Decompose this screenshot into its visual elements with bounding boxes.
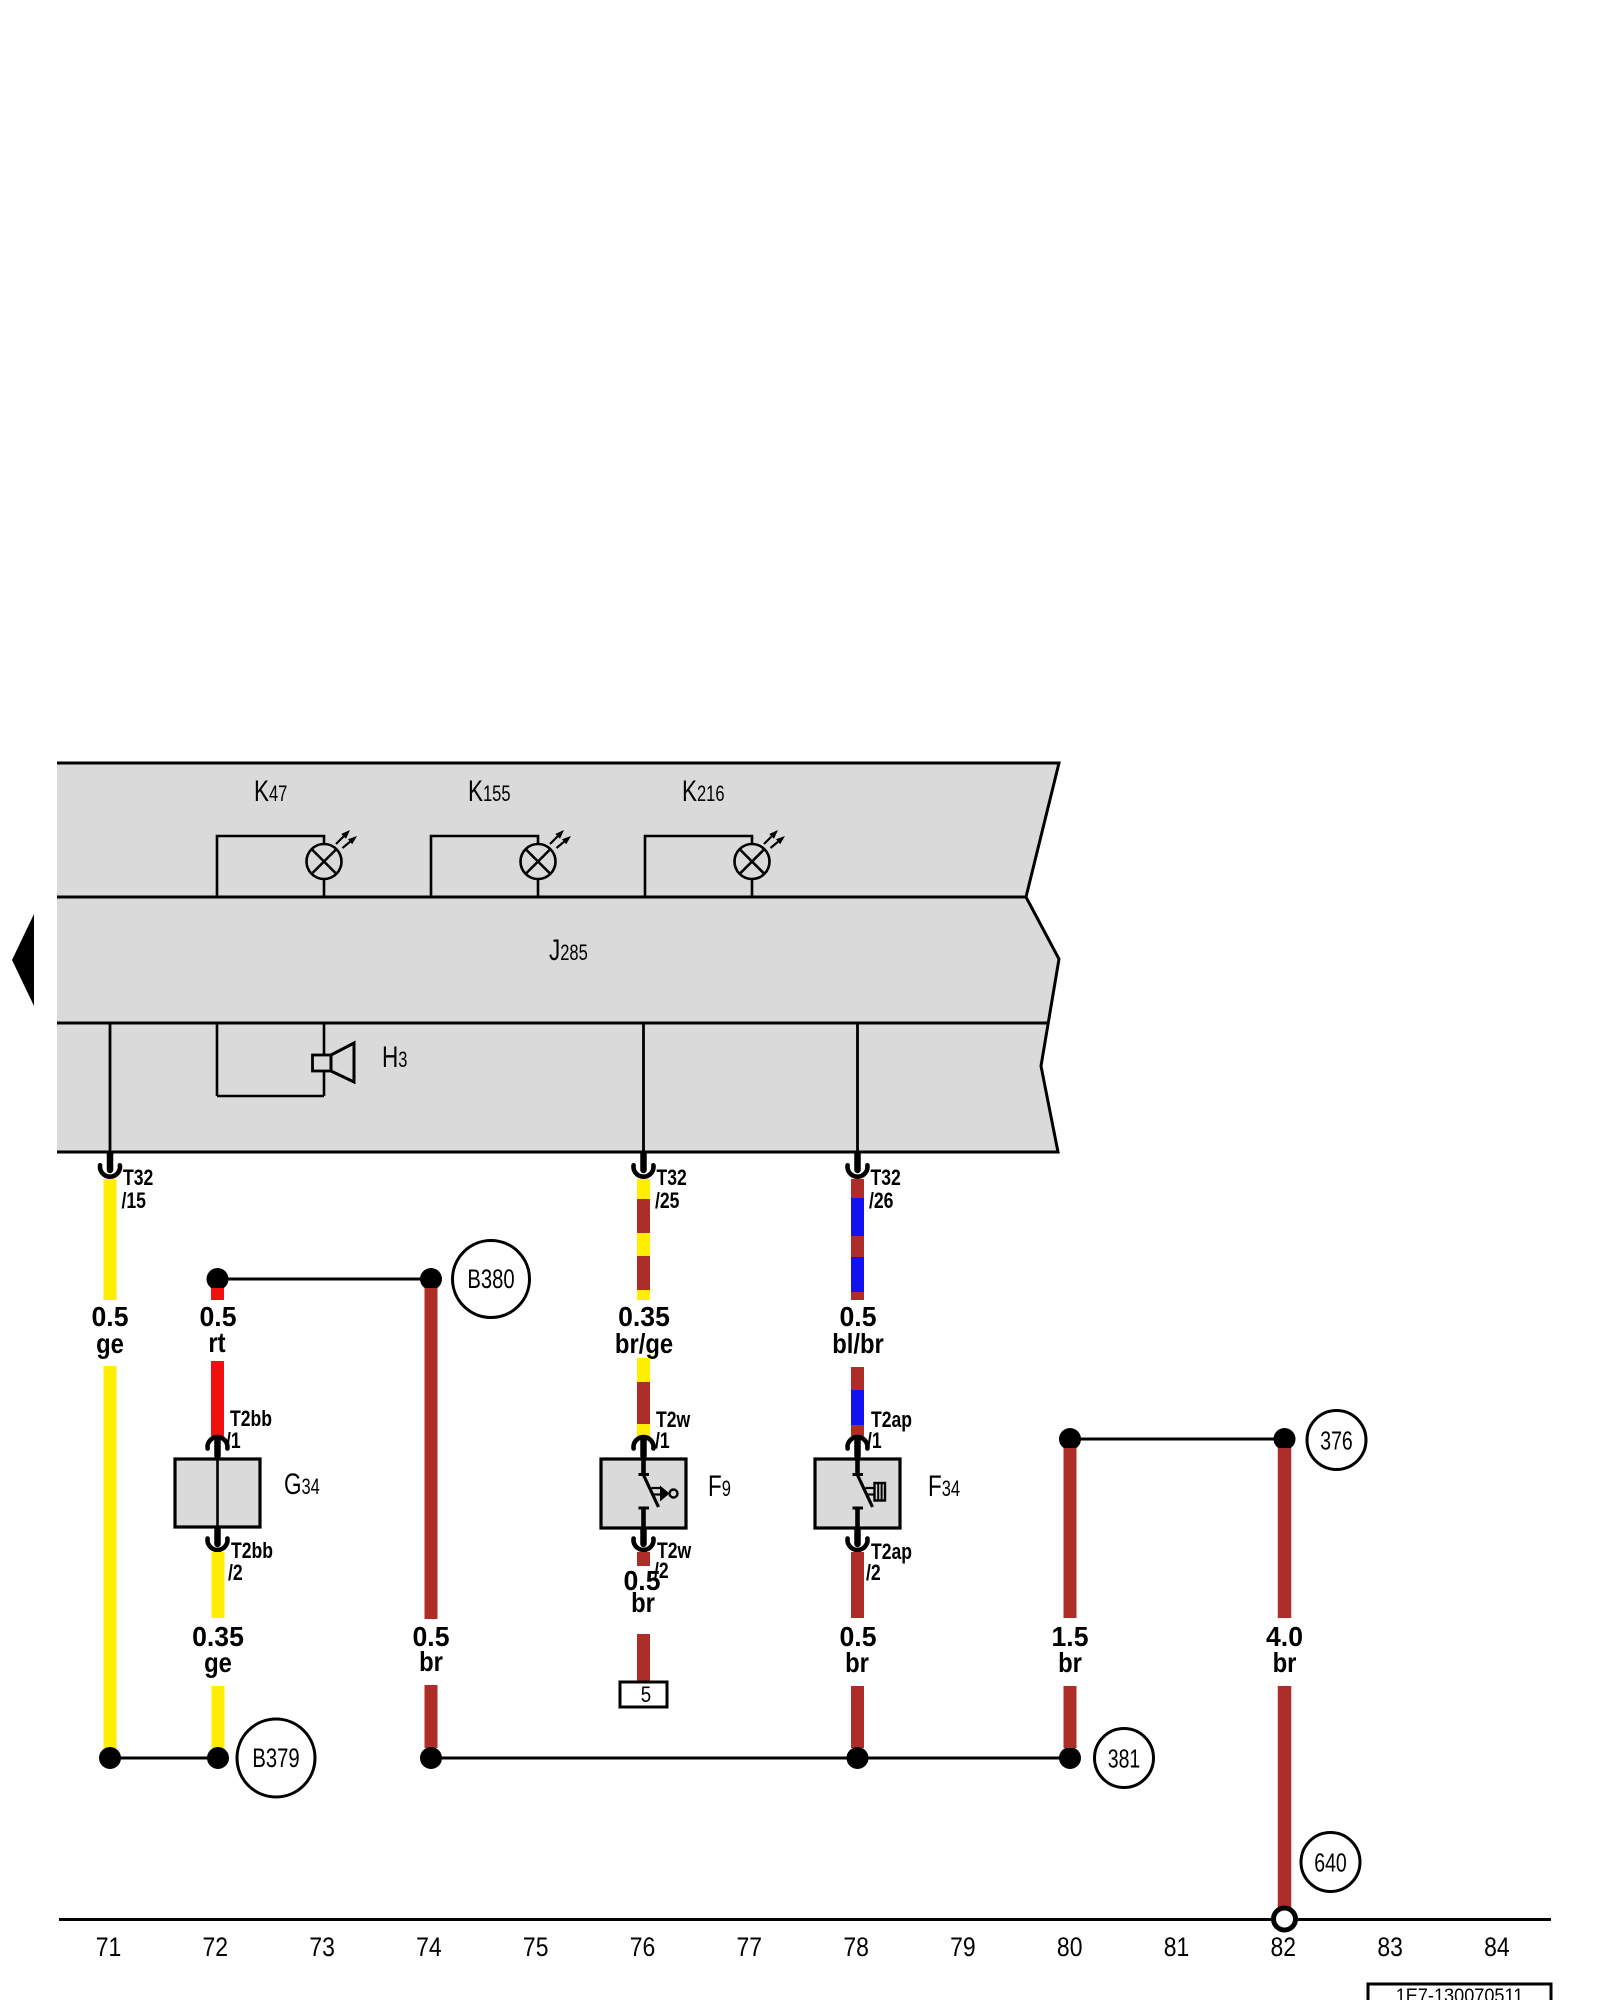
svg-text:83: 83 bbox=[1377, 1932, 1403, 1962]
indicator lamp K47 bbox=[307, 844, 342, 879]
left continuation arrow bbox=[12, 914, 34, 1006]
wire 0.5 ge lower segment bbox=[104, 1366, 117, 1749]
band divider lower bbox=[57, 1022, 1047, 1025]
wire 0.35 br/ge upper segment bbox=[637, 1179, 650, 1300]
svg-text:T2bb: T2bb bbox=[230, 1407, 272, 1431]
connector T2bb/2 pin bbox=[214, 1530, 221, 1544]
switch F34 actuator (plunger) bbox=[866, 1487, 875, 1489]
svg-text:/15: /15 bbox=[122, 1189, 146, 1213]
current track rule bbox=[59, 1918, 1551, 1921]
svg-text:71: 71 bbox=[96, 1932, 122, 1962]
switch F9 actuator (arrow to circle) bbox=[652, 1487, 661, 1489]
wire J285 to T32/26 bbox=[856, 1023, 859, 1152]
connector T2bb/1 arc bbox=[208, 1437, 228, 1448]
junction node bus middle bbox=[847, 1747, 869, 1769]
J285 control unit outline (dashboard insert, torn right edge) bbox=[57, 763, 1059, 1152]
wire 4.0 br upper segment bbox=[1278, 1448, 1292, 1618]
junction node bus right bbox=[1059, 1747, 1081, 1769]
connector T2ap/2 arc bbox=[847, 1539, 867, 1550]
warning buzzer H3 symbol bbox=[313, 1055, 332, 1071]
wire 0.35 ge upper segment bbox=[212, 1552, 225, 1618]
wire 0.5 br (F34) lower segment bbox=[851, 1686, 864, 1748]
wire link B379 bbox=[110, 1757, 218, 1760]
switch F34 contacts bbox=[855, 1459, 860, 1474]
svg-text:br: br bbox=[845, 1646, 869, 1678]
connector T32/26 socket arc bbox=[847, 1165, 867, 1176]
svg-text:B380: B380 bbox=[467, 1264, 514, 1295]
terminal 5 box bbox=[620, 1682, 667, 1707]
wire 0.5 br (F9) stub bbox=[637, 1552, 650, 1566]
wire 0.5 rt stub bbox=[211, 1288, 224, 1300]
wire 1.5 br lower segment bbox=[1064, 1686, 1077, 1748]
svg-text:br: br bbox=[419, 1645, 443, 1677]
switch F9 contacts bbox=[641, 1459, 646, 1474]
indicator lamp K216 bbox=[735, 844, 770, 879]
svg-text:640: 640 bbox=[1314, 1848, 1347, 1877]
connection circle B379 bbox=[237, 1719, 315, 1797]
svg-text:/2: /2 bbox=[228, 1561, 243, 1585]
svg-text:ge: ge bbox=[96, 1327, 124, 1359]
connector T2w/1 pin bbox=[640, 1439, 647, 1456]
connector T32/15 pin bbox=[107, 1154, 114, 1170]
svg-text:76: 76 bbox=[630, 1932, 656, 1962]
svg-text:77: 77 bbox=[737, 1932, 763, 1962]
svg-text:72: 72 bbox=[203, 1932, 229, 1962]
connector T2w/2 arc bbox=[634, 1539, 654, 1550]
wire 1.5 br upper segment bbox=[1064, 1448, 1077, 1618]
svg-text:74: 74 bbox=[416, 1932, 442, 1962]
connector T32/26 pin bbox=[854, 1154, 861, 1170]
svg-text:br: br bbox=[1273, 1646, 1297, 1678]
connector T32/25 socket arc bbox=[634, 1165, 654, 1176]
svg-text:78: 78 bbox=[843, 1932, 869, 1962]
connector T2w/1 arc bbox=[634, 1437, 654, 1448]
wire J285 to T32/15 bbox=[109, 1023, 112, 1152]
junction node B379 right bbox=[207, 1747, 229, 1769]
svg-text:br: br bbox=[631, 1586, 655, 1618]
junction node at B380 left bbox=[207, 1268, 229, 1290]
svg-text:br/ge: br/ge bbox=[615, 1327, 673, 1359]
svg-text:75: 75 bbox=[523, 1932, 549, 1962]
svg-text:rt: rt bbox=[208, 1326, 225, 1358]
connector T32/15 socket arc bbox=[100, 1165, 120, 1176]
warning buzzer H3 bracket wire bbox=[216, 1023, 219, 1096]
wire 0.5 br (F34) upper segment bbox=[851, 1552, 864, 1618]
connector T32/25 pin bbox=[640, 1154, 647, 1170]
connector T2w/2 pin bbox=[640, 1530, 647, 1544]
svg-text:81: 81 bbox=[1164, 1932, 1190, 1962]
wire 0.5 br (B380) lower segment bbox=[425, 1685, 438, 1748]
svg-text:80: 80 bbox=[1057, 1932, 1083, 1962]
indicator lamp K47 bracket wire bbox=[217, 836, 324, 897]
svg-text:376: 376 bbox=[1320, 1426, 1353, 1455]
svg-text:82: 82 bbox=[1271, 1932, 1297, 1962]
wire 4.0 br lower segment bbox=[1278, 1686, 1292, 1908]
connector T2ap/1 arc bbox=[847, 1437, 867, 1448]
svg-text:/26: /26 bbox=[869, 1189, 893, 1213]
wire 0.5 bl/br upper segment bbox=[851, 1179, 864, 1300]
connection circle B380 bbox=[453, 1241, 530, 1318]
wire 0.5 bl/br lower segment bbox=[851, 1367, 864, 1436]
svg-text:84: 84 bbox=[1484, 1932, 1510, 1962]
svg-text:381: 381 bbox=[1108, 1744, 1141, 1773]
svg-text:/1: /1 bbox=[867, 1429, 882, 1453]
svg-text:79: 79 bbox=[950, 1932, 976, 1962]
svg-text:5: 5 bbox=[641, 1684, 651, 1708]
wire 0.35 br/ge lower segment bbox=[637, 1358, 650, 1436]
connector T2ap/2 pin bbox=[854, 1530, 861, 1544]
junction node 376 left bbox=[1059, 1428, 1081, 1450]
svg-text:ge: ge bbox=[204, 1646, 232, 1678]
wire 0.35 ge lower segment bbox=[212, 1686, 225, 1749]
junction node bus left bbox=[420, 1747, 442, 1769]
connection circle 381 bbox=[1095, 1729, 1154, 1788]
svg-text:bl/br: bl/br bbox=[832, 1327, 884, 1359]
indicator lamp K216 bracket wire bbox=[645, 836, 752, 897]
diagram id box bbox=[1368, 1984, 1551, 2000]
svg-text:1E7-130070511: 1E7-130070511 bbox=[1396, 1984, 1524, 2000]
switch F34 box bbox=[815, 1459, 900, 1528]
junction node 376 right bbox=[1274, 1428, 1296, 1450]
svg-text:/25: /25 bbox=[655, 1189, 679, 1213]
svg-text:T32: T32 bbox=[657, 1166, 687, 1190]
svg-text:/2: /2 bbox=[866, 1561, 881, 1585]
wire 0.5 br (B380) upper segment bbox=[425, 1288, 438, 1619]
switch F9 box bbox=[601, 1459, 686, 1528]
connector T2bb/2 arc bbox=[208, 1539, 228, 1550]
wire link 376 bbox=[1070, 1438, 1285, 1441]
svg-text:br: br bbox=[1058, 1646, 1082, 1678]
svg-text:/1: /1 bbox=[655, 1429, 670, 1453]
wire link B380 bbox=[218, 1278, 432, 1281]
indicator lamp K155 bracket wire bbox=[431, 836, 538, 897]
connection circle 376 bbox=[1307, 1411, 1366, 1470]
svg-text:/1: /1 bbox=[226, 1429, 241, 1453]
svg-text:B379: B379 bbox=[252, 1743, 299, 1774]
connector T2bb/1 pin bbox=[214, 1439, 221, 1456]
junction node B379 left bbox=[99, 1747, 121, 1769]
svg-text:T2bb: T2bb bbox=[231, 1539, 273, 1563]
svg-text:T32: T32 bbox=[871, 1166, 901, 1190]
wire 0.5 rt lower segment bbox=[211, 1361, 224, 1436]
connector T2ap/1 pin bbox=[854, 1439, 861, 1456]
connection circle 640 bbox=[1301, 1833, 1360, 1892]
indicator lamp K155 bbox=[521, 844, 556, 879]
ground point 640 (earth connection) bbox=[1274, 1908, 1296, 1930]
junction bus line bbox=[431, 1757, 1070, 1760]
wire 0.5 br (F9) lower segment bbox=[637, 1634, 650, 1682]
band divider upper bbox=[57, 896, 1026, 899]
svg-text:T32: T32 bbox=[123, 1166, 153, 1190]
wire J285 to T32/25 bbox=[642, 1023, 645, 1152]
sensor G34 box bbox=[175, 1459, 260, 1527]
svg-text:73: 73 bbox=[309, 1932, 335, 1962]
wire 0.5 ge upper segment bbox=[104, 1179, 117, 1300]
junction node at B380 right bbox=[420, 1268, 442, 1290]
